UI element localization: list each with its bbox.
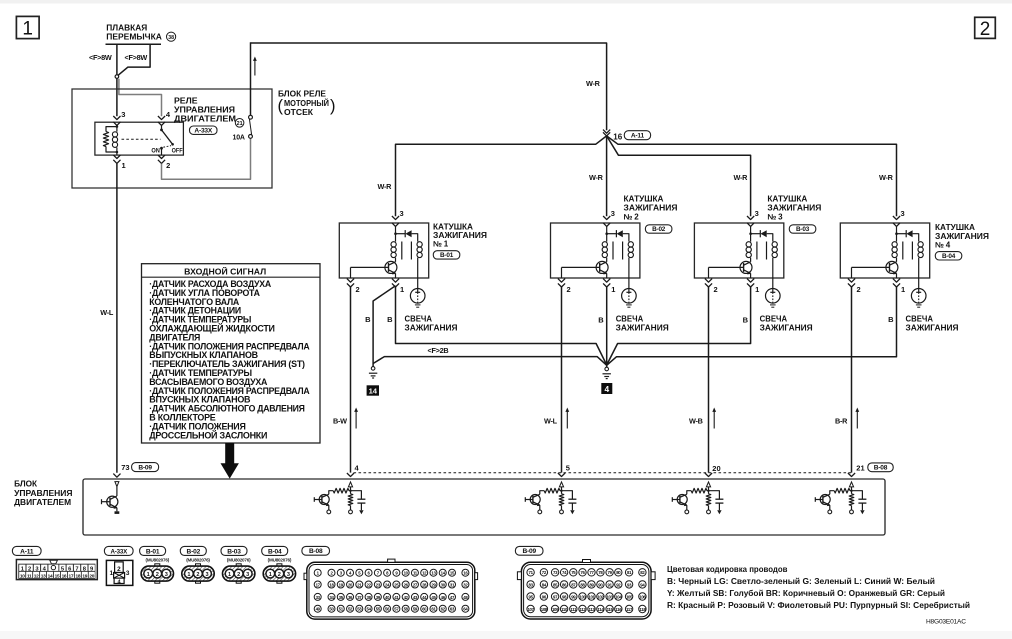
- svg-text:3: 3: [165, 572, 168, 578]
- relay coil parallel resistor: [106, 127, 117, 132]
- wire: top power bus: [251, 43, 607, 130]
- svg-text:107: 107: [527, 607, 534, 612]
- svg-text:ЗАЖИГАНИЯ: ЗАЖИГАНИЯ: [906, 323, 959, 332]
- relay internal node wire pin1 top: [116, 152, 118, 155]
- svg-text:B: B: [598, 315, 604, 324]
- svg-text:16: 16: [613, 132, 622, 141]
- coil 4 secondary winding: [918, 242, 923, 247]
- coil 4 primary winding: [896, 234, 898, 242]
- svg-text:21: 21: [856, 463, 864, 472]
- page index box 2: [975, 17, 996, 38]
- svg-text:№ 3: № 3: [767, 213, 783, 222]
- svg-text:ОТСЕК: ОТСЕК: [284, 108, 313, 117]
- svg-text:1: 1: [122, 161, 126, 170]
- svg-text:МОТОРНЫЙ: МОТОРНЫЙ: [284, 99, 329, 108]
- driver transistor (pin 4): [319, 495, 329, 505]
- ECU internal dashed B-08 rail: [354, 472, 852, 474]
- wire: coil4 pin1 to ground 4 (lower right bus): [607, 287, 897, 365]
- coil 3 diode: [749, 232, 752, 235]
- coil 1 power transistor: [385, 261, 397, 273]
- resistor to driver transistor (pin 21): [850, 490, 852, 492]
- svg-text:100: 100: [579, 594, 586, 599]
- svg-text:1: 1: [269, 572, 272, 578]
- svg-text:B-03: B-03: [227, 548, 241, 555]
- ECU pin 73: [113, 474, 120, 478]
- node at ECU pin 5: [560, 490, 562, 492]
- ECU pin 5 chevron and input arrow: [558, 473, 565, 477]
- svg-text:УПРАВЛЕНИЯ: УПРАВЛЕНИЯ: [174, 105, 235, 114]
- relay actuation dashed link: [122, 138, 161, 140]
- driver transistor (pin 20): [677, 495, 687, 505]
- driver transistor (pin 21): [820, 495, 830, 505]
- svg-text:B-09: B-09: [138, 465, 152, 472]
- svg-text:ЗАЖИГАНИЯ: ЗАЖИГАНИЯ: [433, 231, 487, 240]
- svg-text:W-R: W-R: [734, 173, 749, 182]
- svg-text:H8G03E01AC: H8G03E01AC: [926, 619, 966, 626]
- svg-text:16: 16: [62, 573, 67, 579]
- ignition coil 1 box КАТУШКА ЗАЖИГАНИЯ №1 (B-01): [339, 223, 428, 278]
- coil 4 diode: [895, 232, 898, 235]
- svg-text:Цветовая кодировка проводов: Цветовая кодировка проводов: [667, 565, 788, 574]
- wire: junction to coil 1 branch: [396, 136, 607, 216]
- svg-text:2: 2: [237, 572, 240, 578]
- filter capacitor (pin 21): [852, 491, 863, 499]
- svg-text:(MU802076): (MU802076): [146, 558, 170, 563]
- svg-text:B-08: B-08: [309, 548, 323, 555]
- svg-text:14: 14: [369, 387, 378, 396]
- coil 2 primary winding: [606, 234, 608, 242]
- coil 2 pin 3: [603, 216, 610, 220]
- relay pin 3: [113, 116, 120, 120]
- svg-text:B: B: [743, 315, 749, 324]
- capacitor ground (pin 4): [360, 503, 362, 510]
- coil 2 secondary winding: [628, 242, 633, 247]
- wire: coil2 pin2 W-L to ECU pin 5: [561, 287, 563, 473]
- svg-text:W-R: W-R: [378, 182, 393, 191]
- wire: junction to coil 2 drop: [606, 136, 608, 216]
- svg-text:B-01: B-01: [440, 252, 454, 259]
- svg-text:3: 3: [901, 209, 905, 218]
- svg-text:A-33X: A-33X: [194, 127, 212, 134]
- svg-text:73: 73: [121, 463, 129, 472]
- spark plug 3 СВЕЧА ЗАЖИГАНИЯ: [766, 289, 781, 304]
- coil 1 pin 3: [392, 216, 399, 220]
- svg-text:ЗАЖИГАНИЯ: ЗАЖИГАНИЯ: [760, 323, 813, 332]
- svg-text:1: 1: [187, 572, 190, 578]
- svg-text:101: 101: [588, 594, 595, 599]
- svg-text:B-R: B-R: [835, 416, 848, 425]
- coil 1 core: [401, 242, 403, 260]
- svg-text:B-02: B-02: [187, 548, 201, 555]
- svg-text:КАТУШКА: КАТУШКА: [433, 222, 473, 231]
- connectors B-01..B-04: [140, 546, 166, 555]
- ECU pin 73 driver transistor: [115, 482, 119, 487]
- svg-text:2: 2: [857, 285, 861, 294]
- svg-text:103: 103: [606, 594, 613, 599]
- svg-text:ЗАЖИГАНИЯ: ЗАЖИГАНИЯ: [405, 323, 458, 332]
- coil 2 pin 2: [561, 267, 563, 278]
- coil 4 power transistor: [886, 261, 898, 273]
- pull-down resistor (pin 20): [708, 491, 710, 494]
- svg-text:38: 38: [168, 35, 174, 41]
- svg-text:<F>8W: <F>8W: [125, 53, 148, 62]
- wire: coil2 pin1 to ground 4: [606, 287, 608, 365]
- wire: right fusible link drop: [118, 45, 150, 75]
- relay pin 4: [158, 116, 165, 120]
- svg-text:W-L: W-L: [544, 416, 558, 425]
- ignition coil 3 box КАТУШКА ЗАЖИГАНИЯ №3 (B-03): [694, 223, 783, 278]
- coil 1 pin 1: [392, 279, 399, 283]
- svg-text:10A: 10A: [233, 135, 245, 142]
- svg-text:21: 21: [237, 121, 243, 127]
- svg-text:B: B: [888, 315, 894, 324]
- wire: relay pin 2 to fuse (gray): [162, 138, 251, 179]
- svg-text:): ): [330, 97, 336, 115]
- svg-text:B-02: B-02: [652, 226, 666, 233]
- svg-text:3: 3: [246, 572, 249, 578]
- svg-text:B: B: [365, 315, 371, 324]
- svg-text:W-R: W-R: [589, 173, 604, 182]
- wire: coil3 pin1 to ground 4 (upper right bus): [607, 287, 751, 365]
- coil 2 pin 1: [603, 279, 610, 283]
- node at ECU pin 4: [349, 490, 351, 492]
- svg-text:СВЕЧА: СВЕЧА: [760, 314, 788, 323]
- ECU pin 21 chevron and input arrow: [848, 473, 855, 477]
- transistor emitter terminal circle (pin 21): [829, 505, 831, 510]
- svg-text:113: 113: [588, 607, 595, 612]
- wire: coil3 pin2 W-B to ECU pin 20: [708, 287, 710, 473]
- wire: relay pin1 W-L to ECU pin 73: [116, 164, 118, 473]
- svg-text:7: 7: [75, 566, 78, 572]
- pull-down resistor (pin 21): [851, 491, 853, 494]
- svg-text:102: 102: [597, 594, 604, 599]
- svg-text:B-04: B-04: [268, 548, 282, 555]
- relay block box БЛОК РЕЛЕ (МОТОРНЫЙ ОТСЕК): [72, 89, 272, 188]
- svg-text:ПЕРЕМЫЧКА: ПЕРЕМЫЧКА: [106, 32, 162, 41]
- svg-text:ЗАЖИГАНИЯ: ЗАЖИГАНИЯ: [624, 204, 678, 213]
- wire: junction to coil 4 branch: [607, 136, 897, 216]
- svg-text:Y: Желтый SB: Голубой BR: Ко: Y: Желтый SB: Голубой BR: Коричневый O: …: [667, 589, 945, 598]
- svg-text:2: 2: [980, 19, 991, 40]
- svg-text:B-08: B-08: [874, 465, 888, 472]
- svg-text:3: 3: [755, 209, 759, 218]
- coil 4 core: [902, 242, 904, 260]
- svg-text:2: 2: [278, 572, 281, 578]
- transistor emitter terminal circle (pin 5): [539, 505, 541, 510]
- capacitor ground (pin 20): [718, 503, 720, 510]
- svg-text:№ 2: № 2: [624, 213, 640, 222]
- svg-text:B-W: B-W: [333, 416, 347, 425]
- svg-text:3: 3: [287, 572, 290, 578]
- svg-text:14: 14: [48, 573, 53, 579]
- svg-text:1: 1: [611, 285, 615, 294]
- spark plug 4 СВЕЧА ЗАЖИГАНИЯ: [911, 289, 926, 304]
- resistor to driver transistor (pin 20): [707, 490, 709, 492]
- coil 4 pin 1: [893, 279, 900, 283]
- coil 3 pin 3: [747, 216, 754, 220]
- svg-text:КАТУШКА: КАТУШКА: [935, 223, 975, 232]
- svg-text:3: 3: [611, 209, 615, 218]
- svg-text:2: 2: [28, 566, 31, 572]
- wire: fuse to top bus: [250, 42, 252, 115]
- svg-text:(MU802076): (MU802076): [186, 558, 210, 563]
- svg-text:ПЛАВКАЯ: ПЛАВКАЯ: [106, 24, 147, 33]
- svg-text:УПРАВЛЕНИЯ: УПРАВЛЕНИЯ: [14, 489, 73, 498]
- svg-text:W-L: W-L: [100, 308, 114, 317]
- svg-text:ДВИГАТЕЛЕМ: ДВИГАТЕЛЕМ: [14, 498, 71, 507]
- svg-text:2: 2: [117, 566, 121, 573]
- coil 2 diode: [605, 232, 608, 235]
- svg-text:3: 3: [205, 572, 208, 578]
- svg-text:110: 110: [561, 607, 568, 612]
- ECU pin 20 chevron and input arrow: [705, 473, 712, 477]
- wire: coil1 pin1 down and right to ground 4 (upper bus): [396, 287, 607, 365]
- coil 1 primary winding: [395, 234, 397, 242]
- svg-text:12: 12: [34, 573, 39, 579]
- node: junction connector circle: [115, 75, 119, 79]
- filter capacitor (pin 4): [351, 491, 362, 499]
- coil 3 primary winding: [750, 234, 752, 242]
- svg-text:РЕЛЕ: РЕЛЕ: [174, 96, 198, 105]
- capacitor ground (pin 5): [571, 503, 573, 510]
- connector B-08: [302, 546, 330, 555]
- capacitor ground (pin 21): [861, 503, 863, 510]
- svg-text:105: 105: [626, 594, 633, 599]
- svg-text:ON: ON: [151, 148, 160, 155]
- svg-text:<F>8W: <F>8W: [89, 53, 112, 62]
- svg-text:ВХОДНОЙ СИГНАЛ: ВХОДНОЙ СИГНАЛ: [184, 265, 266, 276]
- svg-text:ЗАЖИГАНИЯ: ЗАЖИГАНИЯ: [616, 323, 669, 332]
- transistor emitter terminal circle (pin 4): [328, 505, 330, 510]
- svg-text:106: 106: [639, 594, 646, 599]
- svg-text:(MU802076): (MU802076): [268, 558, 292, 563]
- svg-text:<F>2B: <F>2B: [428, 346, 449, 355]
- ignition coil 4 box КАТУШКА ЗАЖИГАНИЯ №4 (B-04): [840, 223, 929, 278]
- svg-text:W-R: W-R: [879, 173, 894, 182]
- svg-text:B: B: [387, 315, 393, 324]
- svg-text:10: 10: [20, 573, 25, 579]
- svg-text:БЛОК РЕЛЕ: БЛОК РЕЛЕ: [278, 90, 327, 99]
- svg-text:11: 11: [27, 573, 32, 579]
- svg-text:B-09: B-09: [522, 548, 536, 555]
- svg-text:OFF: OFF: [172, 148, 183, 155]
- coil 3 pin 1: [747, 279, 754, 283]
- svg-text:ЗАЖИГАНИЯ: ЗАЖИГАНИЯ: [935, 232, 989, 241]
- svg-text:3: 3: [126, 570, 130, 577]
- coil 3 pin 2: [708, 267, 710, 278]
- svg-text:1: 1: [110, 570, 114, 577]
- coil 1 secondary winding: [417, 242, 422, 247]
- spark plug 2 СВЕЧА ЗАЖИГАНИЯ: [622, 289, 637, 304]
- wire: gray feed to relay pin 4: [119, 79, 162, 116]
- svg-text:A-33X: A-33X: [110, 548, 128, 555]
- node at ECU pin 21: [850, 490, 852, 492]
- driver transistor (pin 5): [530, 495, 540, 505]
- svg-text:ЗАЖИГАНИЯ: ЗАЖИГАНИЯ: [767, 204, 821, 213]
- svg-text:1: 1: [901, 285, 905, 294]
- page index box 1: [16, 16, 39, 38]
- svg-text:4: 4: [604, 384, 609, 394]
- svg-text:3: 3: [121, 110, 125, 119]
- svg-text:2: 2: [567, 285, 571, 294]
- svg-text:ДРОССЕЛЬНОЙ ЗАСЛОНКИ: ДРОССЕЛЬНОЙ ЗАСЛОНКИ: [149, 429, 267, 440]
- wire: junction to coil 3 branch: [607, 136, 751, 216]
- input signal box ВХОДНОЙ СИГНАЛ: [142, 264, 321, 443]
- svg-text:W-B: W-B: [689, 416, 703, 425]
- svg-text:114: 114: [597, 607, 604, 612]
- coil 1 pin 2: [350, 267, 352, 278]
- svg-text:20: 20: [712, 464, 720, 473]
- svg-text:R: Красный P: Розовый V: Фио: R: Красный P: Розовый V: Фиолетовый PU: …: [667, 601, 970, 610]
- coil 3 core: [756, 242, 758, 260]
- svg-text:№ 4: № 4: [935, 241, 951, 250]
- svg-text:104: 104: [615, 594, 622, 599]
- svg-text:№ 1: № 1: [433, 240, 449, 249]
- svg-text:108: 108: [541, 607, 548, 612]
- svg-text:КАТУШКА: КАТУШКА: [767, 195, 807, 204]
- ground 4: [606, 365, 608, 367]
- svg-text:1: 1: [400, 285, 404, 294]
- wire: F2B bus from ground14 to ground 4 (lower bus): [373, 357, 607, 366]
- connector A-11: [12, 546, 41, 555]
- connector A-33X: [104, 546, 133, 555]
- svg-text:B-01: B-01: [146, 548, 160, 555]
- transistor emitter terminal circle (pin 20): [686, 505, 688, 510]
- node at ECU pin 20: [707, 490, 709, 492]
- svg-text:3: 3: [400, 209, 404, 218]
- svg-text:B-03: B-03: [796, 226, 810, 233]
- svg-text:СВЕЧА: СВЕЧА: [405, 314, 433, 323]
- svg-text:111: 111: [570, 607, 577, 612]
- coil 4 pin 2: [851, 267, 853, 278]
- relay pin 2: [158, 155, 165, 159]
- svg-text:БЛОК: БЛОК: [14, 479, 37, 488]
- resistor to driver transistor (pin 4): [349, 490, 351, 492]
- svg-text:115: 115: [607, 607, 614, 612]
- relay pin 1: [113, 155, 120, 159]
- relay switch contact: [161, 125, 163, 129]
- coil 3 power transistor: [740, 261, 752, 273]
- wire: left fusible link drop: [116, 45, 118, 75]
- svg-text:19: 19: [82, 573, 87, 579]
- svg-text:A-11: A-11: [20, 548, 34, 555]
- svg-text:2: 2: [156, 572, 159, 578]
- ground 14: [371, 367, 375, 371]
- spark plug 1 СВЕЧА ЗАЖИГАНИЯ: [410, 289, 425, 304]
- svg-text:2: 2: [196, 572, 199, 578]
- svg-text:B-04: B-04: [942, 253, 956, 260]
- thick arrow from input box to ECU: [221, 443, 239, 479]
- svg-text:17: 17: [69, 573, 74, 579]
- svg-text:(MU802076): (MU802076): [227, 558, 251, 563]
- wire: coil1 pin2 B-W to ECU pin 4: [350, 287, 352, 473]
- filter capacitor (pin 5): [562, 491, 573, 499]
- coil 4 pin 3: [893, 216, 900, 220]
- svg-text:1: 1: [147, 572, 150, 578]
- pull-down resistor (pin 4): [350, 491, 352, 494]
- svg-text:2: 2: [714, 285, 718, 294]
- svg-text:116: 116: [615, 607, 622, 612]
- svg-text:(: (: [278, 97, 284, 115]
- wire: coil4 pin2 B-R to ECU pin 21: [851, 287, 853, 473]
- svg-text:B: Черный LG: Светло-зеленый: B: Черный LG: Светло-зеленый G: Зеленый …: [667, 577, 935, 586]
- relay coil: [116, 125, 119, 128]
- svg-text:КАТУШКА: КАТУШКА: [624, 195, 664, 204]
- coil 2 power transistor: [596, 261, 608, 273]
- wire: feed to relay pin 3: [116, 78, 118, 116]
- connector B-09: [515, 546, 543, 555]
- resistor to driver transistor (pin 5): [560, 490, 562, 492]
- coil 1 diode: [394, 232, 397, 235]
- svg-text:1: 1: [755, 285, 759, 294]
- svg-text:109: 109: [552, 607, 559, 612]
- svg-text:A-11: A-11: [631, 133, 645, 140]
- svg-text:20: 20: [89, 573, 94, 579]
- pull-down resistor (pin 5): [561, 491, 563, 494]
- fuse 10A (21): [249, 115, 253, 119]
- svg-text:117: 117: [626, 607, 633, 612]
- ignition coil 2 box КАТУШКА ЗАЖИГАНИЯ №2 (B-02): [551, 223, 640, 278]
- svg-text:1: 1: [22, 19, 33, 40]
- svg-text:18: 18: [75, 573, 80, 579]
- svg-text:5: 5: [566, 464, 570, 473]
- svg-text:2: 2: [166, 161, 170, 170]
- wire: coil1 pin1 diagonal to ground 14: [373, 286, 395, 367]
- coil 2 core: [612, 242, 614, 260]
- svg-text:112: 112: [579, 607, 586, 612]
- svg-text:2: 2: [356, 285, 360, 294]
- current direction arrow: [254, 60, 256, 76]
- relay U1 inner box: [95, 122, 183, 155]
- svg-text:W-R: W-R: [586, 79, 601, 88]
- ECU pin 4 chevron and input arrow: [347, 473, 354, 477]
- svg-text:СВЕЧА: СВЕЧА: [906, 314, 934, 323]
- svg-text:СВЕЧА: СВЕЧА: [616, 314, 644, 323]
- svg-text:118: 118: [639, 607, 646, 612]
- svg-text:1: 1: [228, 572, 231, 578]
- engine control unit box БЛОК УПРАВЛЕНИЯ ДВИГАТЕЛЕМ: [83, 479, 885, 535]
- svg-text:13: 13: [41, 573, 46, 579]
- svg-text:15: 15: [55, 573, 60, 579]
- node 16 (A-11) junction: [603, 130, 610, 134]
- filter capacitor (pin 20): [709, 491, 720, 499]
- coil 3 secondary winding: [772, 242, 777, 247]
